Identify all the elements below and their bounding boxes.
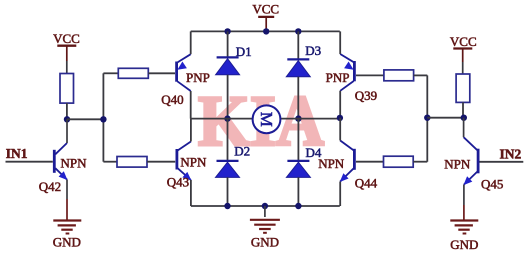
resistor Q44 base	[384, 156, 414, 167]
wire IN2 to Q45 base	[479, 161, 523, 163]
wire node to left base rail	[67, 118, 103, 120]
node D1 top junction	[224, 28, 230, 34]
svg-text:GND: GND	[251, 234, 279, 249]
diode D2	[216, 161, 240, 178]
node D4 bottom junction	[295, 203, 301, 209]
wire Q39 base to resistor	[356, 74, 384, 76]
diode D1	[216, 57, 240, 74]
wire resistor to node Q45 collector	[462, 102, 464, 117]
wire D1 anode to motor rail	[227, 75, 229, 119]
svg-text:D1: D1	[236, 44, 252, 59]
wire resistor to right bus top	[414, 74, 428, 76]
svg-text:VCC: VCC	[450, 34, 477, 49]
wire Q39 collector to motor rail	[339, 91, 341, 118]
node Q39 collector junction	[337, 115, 343, 121]
wire right base bus vertical	[426, 75, 428, 161]
power VCC top (bar symbol)	[258, 17, 274, 32]
svg-text:NPN: NPN	[444, 156, 471, 171]
wire bus to node Q45 collector	[427, 117, 464, 119]
diode D4	[286, 161, 310, 178]
ground right (symbol)	[450, 221, 478, 234]
transistor Q43 NPN	[177, 142, 192, 181]
power VCC right (bar symbol)	[453, 49, 472, 75]
ground center (symbol)	[250, 206, 280, 233]
wire D2 cathode to motor rail	[227, 119, 229, 161]
wire D1 cathode to rail	[227, 31, 229, 57]
resistor Q39 base	[384, 70, 414, 81]
resistor left pull-up	[60, 74, 74, 104]
wire bus to left bottom resistor	[103, 161, 117, 163]
svg-text:Q43: Q43	[167, 175, 189, 190]
wire D3 cathode to rail	[297, 31, 299, 59]
svg-text:IN2: IN2	[500, 146, 522, 161]
wire Q44 base to resistor	[356, 161, 384, 163]
svg-text:Q39: Q39	[355, 88, 377, 103]
svg-text:PNP: PNP	[186, 70, 210, 85]
wire resistor to Q43 base	[147, 161, 175, 163]
svg-text:Q45: Q45	[481, 176, 503, 191]
wire D4 anode to ground rail	[297, 177, 299, 206]
node left base bus junction	[100, 116, 106, 122]
wire motor to right output	[280, 118, 339, 120]
svg-text:GND: GND	[53, 234, 81, 249]
wire resistor to right bus bottom	[413, 161, 427, 163]
transistor Q44 NPN	[340, 141, 355, 183]
wire Q43 collector to motor rail	[190, 119, 192, 142]
transistor Q39 PNP	[340, 54, 354, 91]
svg-text:PNP: PNP	[326, 70, 350, 85]
transistor Q45 NPN	[463, 118, 478, 221]
svg-text:VCC: VCC	[53, 31, 80, 46]
svg-text:NPN: NPN	[180, 154, 207, 169]
wire left base bus vertical	[102, 73, 104, 161]
node right output junction	[295, 115, 301, 121]
motor M	[253, 105, 281, 133]
transistor Q42 NPN	[54, 119, 67, 220]
wire D3 anode to motor rail	[297, 77, 299, 119]
wire D4 cathode to motor rail	[297, 119, 299, 161]
wire Q40 collector to motor rail	[190, 91, 192, 119]
svg-text:Q44: Q44	[355, 176, 378, 191]
diode D3	[286, 59, 310, 76]
wire Q44 emitter to ground rail	[339, 182, 341, 207]
node VCC rail center	[263, 28, 269, 34]
ground left (symbol)	[53, 221, 81, 234]
resistor right pull-up	[456, 74, 470, 102]
wire Q43 emitter to ground rail	[190, 180, 192, 206]
wire Q39 emitter to VCC rail	[339, 31, 341, 54]
transistor Q40 PNP	[177, 54, 191, 91]
power VCC left (bar symbol)	[57, 46, 76, 74]
wire Q44 collector to motor rail	[339, 118, 341, 141]
wire ground rail	[191, 205, 340, 207]
node D3 top junction	[295, 28, 301, 34]
resistor Q43 base	[117, 157, 147, 168]
wire Q40 emitter to VCC rail	[190, 31, 192, 54]
wire IN1 to Q42 base	[6, 161, 53, 163]
node right base bus junction	[424, 115, 430, 121]
svg-text:D3: D3	[305, 43, 321, 58]
svg-text:D2: D2	[234, 143, 250, 158]
wire left output to motor	[191, 118, 253, 120]
svg-text:GND: GND	[450, 237, 478, 252]
wire resistor to Q40 base	[148, 72, 175, 74]
resistor Q40 base	[118, 68, 148, 78]
wire bus to left top resistor	[103, 72, 118, 74]
svg-text:Q42: Q42	[39, 179, 61, 194]
svg-text:Q40: Q40	[161, 92, 183, 107]
node D2 bottom junction	[224, 203, 230, 209]
node left output junction	[224, 115, 230, 121]
svg-text:NPN: NPN	[61, 155, 88, 170]
svg-text:NPN: NPN	[318, 156, 345, 171]
svg-text:IN1: IN1	[6, 146, 28, 161]
node ground rail center	[262, 203, 268, 209]
wire D2 anode to ground rail	[227, 177, 229, 206]
node Q42 collector junction	[64, 116, 70, 122]
svg-text:VCC: VCC	[252, 2, 279, 17]
node Q45 collector junction	[461, 115, 467, 121]
svg-text:M: M	[257, 112, 276, 127]
wire VCC top rail	[191, 30, 340, 32]
wire resistor to node Q42 collector	[66, 103, 68, 119]
